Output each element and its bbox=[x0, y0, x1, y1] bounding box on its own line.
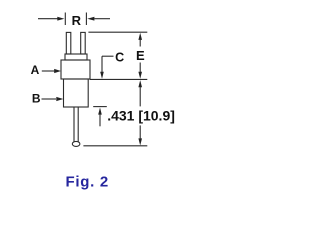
svg-text:B: B bbox=[32, 91, 41, 105]
connector center pin left edge bbox=[73, 107, 75, 142]
svg-text:.431 [10.9]: .431 [10.9] bbox=[107, 107, 175, 123]
dimension C stem bbox=[101, 56, 103, 72]
connector collar bbox=[65, 54, 87, 60]
connector left prong bbox=[66, 32, 71, 54]
extension line from prong top bbox=[88, 31, 147, 33]
dimension E lower arrowhead bbox=[138, 72, 142, 79]
svg-text:E: E bbox=[136, 48, 145, 63]
dimension E upper arrowhead bbox=[138, 33, 142, 40]
dimension .431 right lower stem bbox=[139, 125, 141, 139]
svg-text:A: A bbox=[31, 63, 40, 77]
extension line from body flange bbox=[90, 78, 148, 80]
dimension .431 right upper stem bbox=[139, 87, 141, 107]
label B arrowhead bbox=[56, 97, 63, 101]
dimension R line left bbox=[38, 18, 58, 20]
dimension .431 right lower arrowhead bbox=[138, 138, 142, 145]
dimension R arrow left bbox=[57, 17, 64, 21]
label B leader line bbox=[42, 98, 57, 100]
dimension up arrowhead below bar bbox=[98, 108, 102, 115]
dimension .431 right upper arrowhead bbox=[138, 80, 142, 87]
dimension C arrowhead bbox=[100, 72, 104, 79]
dimension E lower stem bbox=[139, 63, 141, 73]
connector center pin right edge bbox=[77, 107, 79, 142]
dimension R extension tick left bbox=[64, 13, 66, 26]
dimension R extension tick right bbox=[85, 13, 87, 26]
label A arrowhead bbox=[54, 69, 61, 73]
connector pin rounded tip bbox=[72, 141, 80, 146]
label A leader line bbox=[42, 70, 55, 72]
dimension R line right bbox=[94, 18, 110, 20]
svg-text:C: C bbox=[115, 51, 124, 65]
dimension C leader bbox=[102, 55, 114, 57]
connector right prong bbox=[81, 32, 86, 54]
svg-text:Fig. 2: Fig. 2 bbox=[66, 174, 109, 191]
connector lower body (B section) bbox=[64, 79, 89, 107]
dimension R arrow right bbox=[87, 17, 94, 21]
dimension hanging stem bbox=[99, 114, 101, 126]
svg-text:R: R bbox=[72, 13, 82, 28]
connector upper body (A section) bbox=[61, 60, 90, 79]
dimension bar at body bottom bbox=[93, 106, 107, 108]
dimension E upper stem bbox=[139, 40, 141, 47]
extension line from pin tip bbox=[83, 145, 147, 147]
